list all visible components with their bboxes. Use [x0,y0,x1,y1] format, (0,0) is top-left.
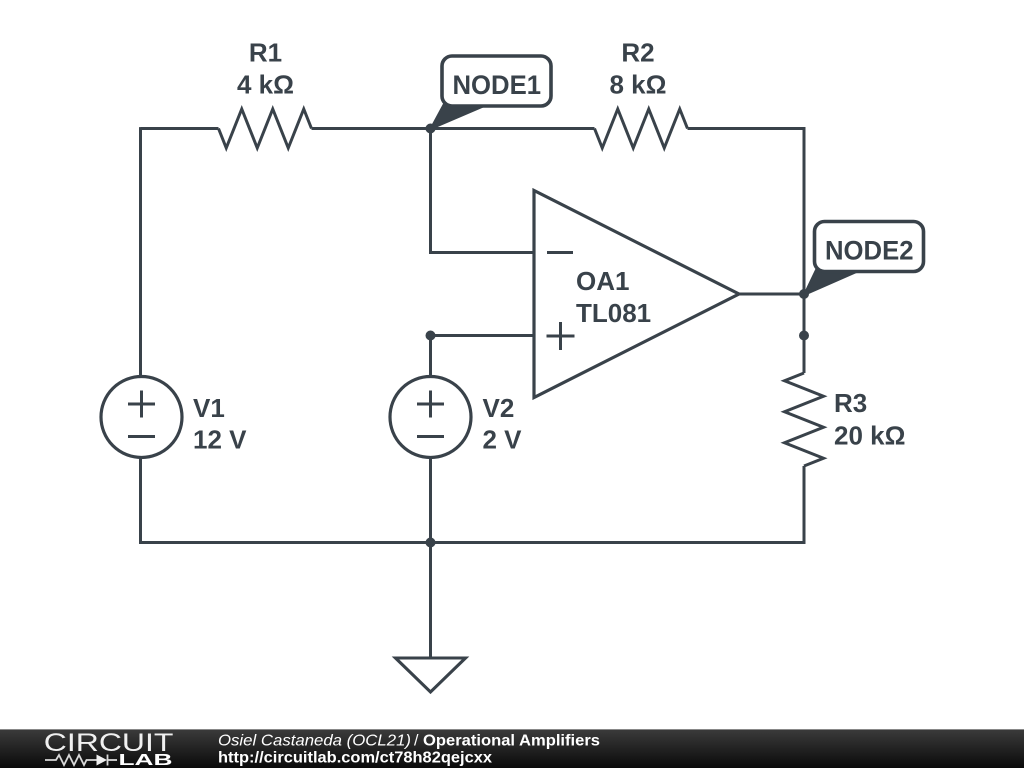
svg-text:OA1: OA1 [576,266,629,296]
node NODE1 callout tail [431,104,490,129]
voltage source V2 circle [390,377,471,458]
wire op-amp output to NODE2 [739,293,804,296]
svg-text:8 kΩ: 8 kΩ [610,70,667,100]
resistor R2 zigzag [595,109,688,148]
svg-text:V2: V2 [483,393,515,423]
svg-text:Operational Amplifiers: Operational Amplifiers [423,733,600,750]
wire right rail upper (top wire down to op-amp output) [803,127,806,294]
svg-text:TL081: TL081 [576,298,651,328]
node NODE2 callout tail [804,270,861,295]
svg-text:20 kΩ: 20 kΩ [834,421,905,451]
footer attribution text [0,728,700,768]
footer CircuitLab logo [0,728,200,768]
junction dot bottom rail [426,538,436,548]
svg-text:V1: V1 [193,393,225,423]
svg-text:2 V: 2 V [483,425,523,455]
op-amp OA1 minus input mark [547,251,573,254]
resistor R3 zigzag [785,373,824,466]
svg-text:Osiel Castaneda (OCL21): Osiel Castaneda (OCL21) [218,733,411,750]
voltage source V1 circle [101,377,182,458]
wire left rail upper (top wire down to V1) [139,127,142,376]
footer bar [0,729,1024,768]
wire bottom rail [139,541,805,544]
wire top-left (V1 top to R1) [141,127,219,130]
wire top-right (R2 to right rail) [688,127,806,130]
wire V2 top lead [429,336,432,377]
wire V2 bottom lead [429,458,432,543]
svg-text:12 V: 12 V [193,425,247,455]
svg-text:NODE2: NODE2 [825,236,914,266]
wire non-inverting input from V2 [431,334,535,337]
voltage source V2 plus mark [417,391,444,418]
voltage source V2 minus mark [417,435,444,438]
junction dot NODE2 output [799,289,809,299]
voltage source V1 minus mark [128,435,155,438]
svg-text:4 kΩ: 4 kΩ [237,70,294,100]
svg-text:/: / [414,733,419,750]
op-amp OA1 plus input mark [547,322,575,350]
wire top-middle (R1 to R2 through NODE1) [312,127,595,130]
svg-text:R3: R3 [834,388,867,418]
svg-text:R1: R1 [249,38,282,68]
junction dot R3 top [799,331,809,341]
svg-text:R2: R2 [621,38,654,68]
wire NODE1 drop to inverting input [431,129,535,253]
resistor R1 zigzag [219,109,312,148]
node NODE1 callout box [442,56,551,106]
junction dot NODE1 [426,124,436,134]
wire left rail lower (V1 to bottom rail) [139,458,142,544]
wire right rail middle (NODE2 down to R3 top) [803,294,806,373]
svg-text:NODE1: NODE1 [453,70,542,100]
op-amp OA1 triangle [534,191,739,398]
wire R3 bottom lead [803,466,806,544]
wire ground lead [429,543,432,659]
voltage source V1 plus mark [128,391,155,418]
ground symbol [396,658,466,692]
node NODE2 callout box [815,222,924,272]
junction dot V2 top [426,331,436,341]
svg-text:http://circuitlab.com/ct78h82q: http://circuitlab.com/ct78h82qejcxx [218,750,492,767]
